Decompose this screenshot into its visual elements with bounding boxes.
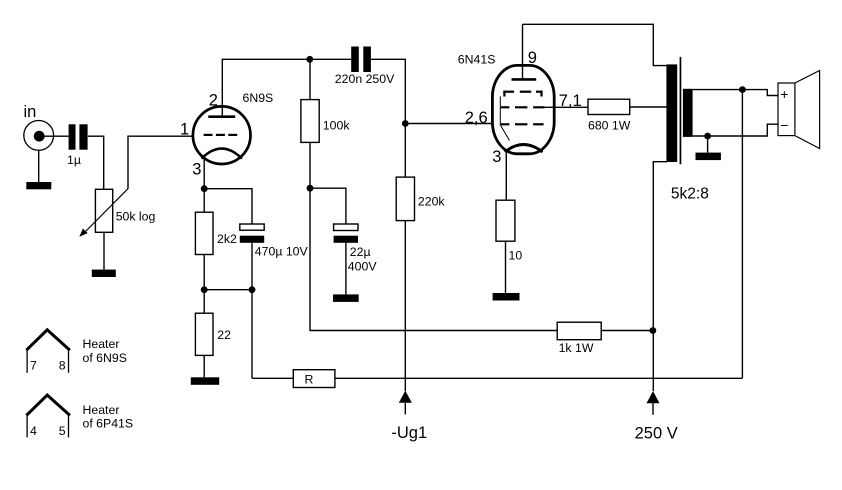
svg-text:680 1W: 680 1W: [588, 118, 631, 132]
wire top rail U1 to C2: [222, 58, 352, 60]
wire C2 to 220k top: [371, 59, 405, 177]
U2 beam plate to cathode link: [500, 96, 509, 140]
wire node to C4: [310, 188, 346, 224]
wire C3 bottom down: [251, 243, 253, 290]
node 2k2/22: [201, 286, 208, 293]
wire U2 plate lead up: [522, 24, 524, 79]
wire C1 to pot top: [88, 136, 104, 189]
svg-text:6N41S: 6N41S: [458, 52, 496, 66]
svg-text:−: −: [780, 117, 788, 133]
svg-text:2: 2: [209, 91, 218, 109]
wire wiper to grid pin 1: [128, 136, 193, 189]
triode U1 6N9S envelope: [193, 106, 251, 164]
svg-text:1: 1: [180, 121, 189, 139]
svg-text:3: 3: [192, 161, 201, 179]
node grid wire: [402, 120, 409, 127]
wire primary bottom to 250V line: [653, 162, 667, 391]
wire node row y290: [204, 289, 252, 291]
transformer T1 core: [680, 57, 682, 164]
wire to grid 2,6: [405, 123, 492, 125]
svg-text:6N9S: 6N9S: [243, 91, 274, 105]
resistor R7 1k 1W: [557, 322, 601, 340]
U2 cathode arc: [505, 145, 543, 153]
wire U2 cathode down to R5: [505, 150, 507, 201]
U2 plate: [512, 78, 537, 81]
wire g2 exit to 7,1: [545, 106, 589, 108]
capacitor C4 22µ: [334, 224, 358, 243]
svg-text:5: 5: [59, 424, 66, 438]
U2 control grid g1 (dashed): [501, 123, 544, 125]
wire secondary top to speaker +: [693, 90, 779, 96]
wire pot bottom to ground: [103, 232, 105, 269]
svg-text:-Ug1: -Ug1: [391, 424, 427, 442]
wire C4 bottom to ground: [345, 243, 347, 295]
svg-text:1µ: 1µ: [67, 153, 81, 167]
svg-text:100k: 100k: [323, 118, 351, 132]
capacitor C3 470µ: [240, 224, 264, 243]
svg-text:250 V: 250 V: [635, 425, 678, 443]
ground (R2): [191, 377, 219, 385]
node top rail / 100k: [306, 56, 313, 63]
svg-text:R: R: [305, 373, 314, 387]
svg-text:4: 4: [30, 424, 37, 438]
input jack J1: [24, 120, 54, 150]
ground (C4): [333, 294, 359, 302]
U2 screen grid g2 (dashed): [501, 106, 545, 108]
svg-text:220k: 220k: [418, 195, 446, 209]
resistor R8 feedback R: [293, 370, 335, 388]
wire C3 node to R box: [252, 377, 293, 379]
transformer T1 secondary: [683, 89, 693, 137]
U1 plate: [208, 115, 235, 118]
resistor R4 220k: [396, 177, 414, 221]
heater symbol of 6N9S: [26, 330, 70, 373]
svg-text:in: in: [24, 103, 37, 121]
potentiometer 50k log: [79, 189, 128, 237]
wire C3 node down to R wire: [251, 290, 253, 379]
wire R2 bottom to ground: [203, 355, 205, 377]
svg-text:7,1: 7,1: [559, 92, 582, 110]
wire R box to feedback riser: [335, 377, 743, 379]
speaker LS1 cone: [795, 71, 820, 149]
svg-text:3: 3: [492, 148, 501, 166]
svg-text:1k 1W: 1k 1W: [559, 341, 594, 355]
svg-text:22: 22: [217, 328, 231, 342]
svg-text:9: 9: [528, 49, 537, 67]
U2 beam plates (dashed with hooks): [503, 91, 542, 97]
wire U1 plate lead up: [221, 59, 223, 116]
resistor R5 10: [496, 200, 515, 241]
wire feedback riser up to speaker +: [741, 90, 743, 379]
ground (jack): [26, 182, 51, 189]
svg-text:2,6: 2,6: [465, 109, 488, 127]
ground (pot): [92, 270, 116, 277]
supply arrow 250 V: [647, 391, 660, 415]
capacitor C1 1µ: [69, 124, 88, 149]
wire jack to ground: [38, 150, 40, 182]
svg-text:220n 250V: 220n 250V: [335, 72, 395, 86]
resistor R1 2k2: [195, 212, 213, 254]
ground (R5): [493, 293, 520, 301]
svg-text:of 6P41S: of 6P41S: [83, 417, 134, 431]
svg-text:7: 7: [30, 358, 37, 372]
node secondary bottom / ground: [704, 133, 711, 140]
resistor R2 22: [195, 313, 213, 355]
resistor R6 680 1W: [588, 99, 630, 114]
svg-text:470µ 10V: 470µ 10V: [255, 244, 309, 258]
wire jack to C1: [40, 135, 69, 137]
node 100k bottom: [307, 185, 314, 192]
wire secondary bottom to speaker -: [693, 124, 779, 136]
svg-text:+: +: [780, 86, 788, 102]
node cathode U1: [201, 185, 208, 192]
heater symbol of 6P41S: [26, 395, 70, 437]
capacitor C2 220n: [351, 47, 371, 73]
svg-text:5k2:8: 5k2:8: [671, 185, 709, 202]
node C3 bottom: [249, 286, 256, 293]
wire top rail U2 to transformer: [523, 24, 668, 65]
wire R5 bottom to ground: [505, 241, 507, 293]
wire secondary node to ground: [707, 136, 709, 153]
wire 100k top: [309, 59, 311, 99]
svg-text:2k2: 2k2: [217, 232, 237, 246]
transformer T1 primary: [666, 64, 677, 162]
resistor R3 100k: [301, 100, 319, 143]
ground (secondary): [696, 153, 721, 161]
svg-text:Heater: Heater: [83, 337, 120, 351]
U1 cathode arc: [202, 149, 242, 159]
svg-text:22µ: 22µ: [350, 245, 371, 259]
svg-text:400V: 400V: [348, 259, 378, 273]
wire 680 to primary tap: [630, 106, 667, 108]
U1 grid (dashed): [204, 134, 238, 136]
svg-text:Heater: Heater: [83, 403, 120, 417]
pentode U2 6P41S envelope: [492, 65, 554, 153]
svg-text:50k log: 50k log: [116, 210, 156, 224]
svg-text:8: 8: [59, 358, 66, 372]
wire R1 bottom to R2 top: [203, 255, 205, 314]
svg-text:of 6N9S: of 6N9S: [83, 351, 127, 365]
wire 1k right to 250V line: [601, 330, 653, 332]
supply arrow -Ug1: [399, 391, 412, 415]
node 1k / 250V: [650, 327, 657, 334]
wire 220k bottom to -Ug1 arrow: [404, 221, 406, 391]
node feedback / speaker +: [739, 86, 746, 93]
svg-text:10: 10: [509, 249, 523, 263]
wire 100k bottom down and right to 1k: [310, 142, 557, 330]
wire U1 cathode down: [203, 159, 205, 212]
wire cathode node to C3: [204, 189, 252, 224]
speaker LS1 box: [778, 83, 795, 136]
